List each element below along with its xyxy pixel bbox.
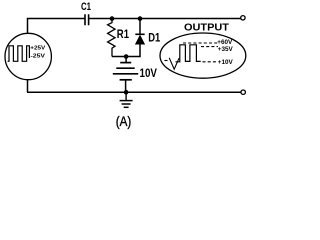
output balloon ellipse: [160, 33, 246, 78]
diode D1: [135, 19, 160, 57]
resistor R1: [108, 19, 130, 57]
wire top rail right of C1: [89, 18, 241, 20]
svg-text:D1: D1: [148, 31, 160, 45]
wire source to bottom rail: [27, 80, 29, 93]
svg-text:+10V: +10V: [218, 59, 234, 66]
ground: [120, 92, 133, 107]
wire bottom rail: [27, 91, 241, 93]
waveform start notch: [165, 58, 180, 69]
node ground junction: [124, 90, 129, 95]
node battery top: [124, 54, 129, 59]
terminal top right: [241, 16, 245, 20]
wire top rail: [28, 19, 86, 34]
battery 10V: [113, 57, 157, 93]
dashed level +60V: [183, 42, 218, 44]
output waveform: [176, 45, 201, 62]
dashed level +35V: [201, 46, 218, 48]
svg-text:+25V: +25V: [30, 45, 46, 51]
generator source: [5, 33, 51, 79]
svg-text:OUTPUT: OUTPUT: [184, 21, 230, 33]
svg-text:+35V: +35V: [218, 46, 234, 53]
svg-text:R1: R1: [117, 27, 129, 41]
square wave glyph: [8, 46, 30, 62]
node R1 top: [110, 16, 115, 21]
svg-text:(A): (A): [116, 114, 132, 129]
terminal bottom right: [241, 90, 245, 94]
svg-text:C1: C1: [81, 1, 91, 13]
node D1 top: [138, 16, 143, 21]
wire R1/D1 bottoms: [112, 56, 141, 58]
svg-text:10V: 10V: [140, 68, 158, 80]
svg-text:-25V: -25V: [31, 53, 46, 59]
dashed level +10V right: [203, 61, 217, 63]
capacitor C1: [81, 1, 91, 25]
